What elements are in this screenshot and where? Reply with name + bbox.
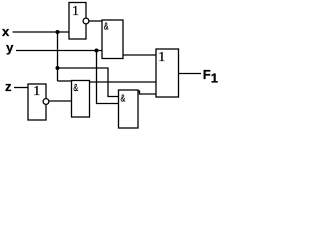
bubble U1 output — [83, 18, 89, 24]
wire U2 output — [123, 54, 156, 56]
wire x to bottom AND — [58, 68, 119, 97]
wire y input — [16, 50, 102, 52]
svg-text:y: y — [6, 40, 14, 55]
wire z input — [14, 87, 28, 89]
node x lower junction — [56, 66, 60, 70]
AND gate U2 box — [102, 20, 123, 59]
bubble U3 output — [43, 99, 49, 105]
node x junction — [56, 30, 60, 34]
svg-text:&: & — [73, 82, 78, 94]
svg-text:1: 1 — [211, 70, 218, 85]
OR gate U6 box — [156, 49, 179, 97]
wire U1 output to U2 — [89, 20, 102, 22]
wire x input — [13, 31, 70, 33]
inverter U1 box — [69, 3, 86, 40]
wire x to middle AND — [58, 80, 72, 82]
svg-text:&: & — [121, 92, 126, 104]
svg-text:1: 1 — [72, 4, 79, 19]
wire U5 output — [138, 91, 156, 94]
wire U3 output to U4 — [49, 100, 72, 102]
svg-text:&: & — [104, 21, 109, 33]
svg-text:z: z — [5, 79, 12, 94]
wire x branch vertical — [57, 32, 59, 81]
svg-text:F: F — [203, 67, 211, 82]
wire U4 output — [90, 81, 157, 83]
svg-text:1: 1 — [158, 50, 165, 65]
svg-text:1: 1 — [33, 84, 40, 99]
inverter U3 box — [28, 84, 46, 120]
wire y branch vertical — [97, 51, 119, 104]
AND gate U5 box — [119, 90, 139, 128]
node y junction — [95, 49, 99, 53]
wire F1 output — [179, 73, 202, 75]
svg-text:x: x — [2, 24, 10, 39]
AND gate U4 box — [72, 81, 90, 118]
